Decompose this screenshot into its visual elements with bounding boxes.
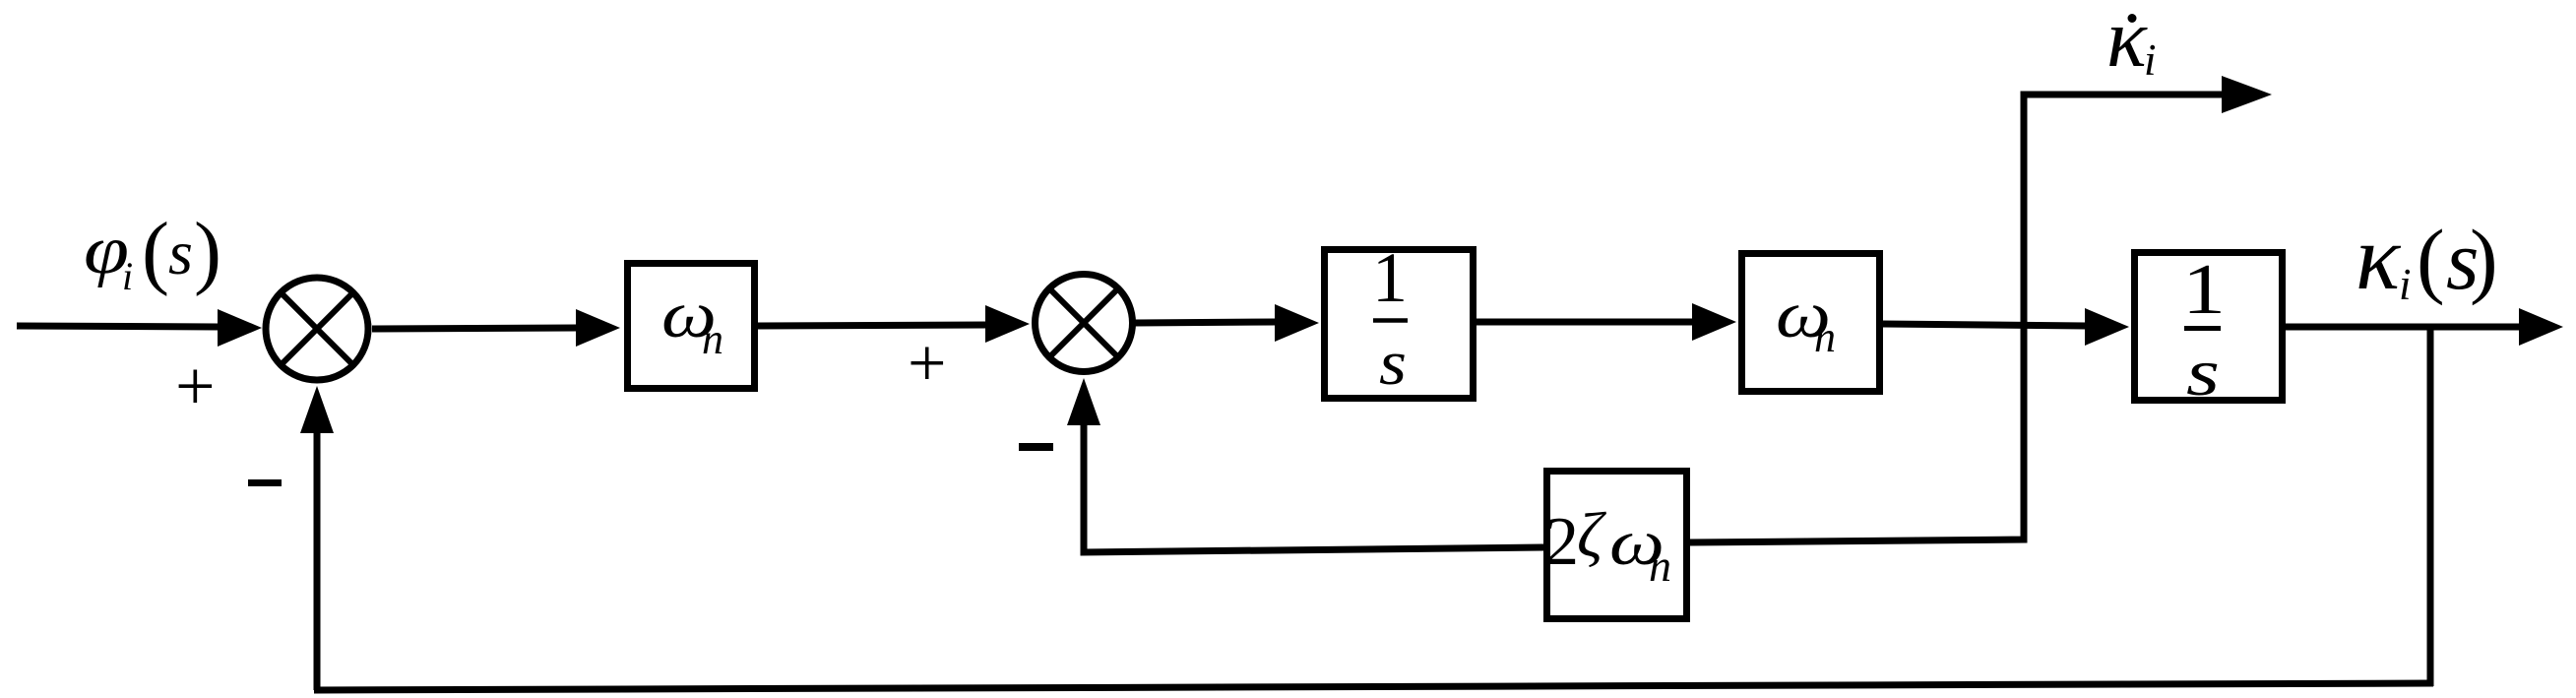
label phi_i(s) input bbox=[84, 206, 221, 298]
wire branch up to kdot output bbox=[2024, 95, 2223, 326]
wire G1 feedback to S2 bbox=[1084, 421, 1543, 552]
svg-text:ζ: ζ bbox=[1577, 500, 1606, 571]
wire outer feedback bottom bbox=[314, 683, 2433, 690]
label minus at S1 bbox=[248, 479, 282, 486]
arrowhead into W2 bbox=[1692, 303, 1736, 341]
svg-text:κ: κ bbox=[2106, 0, 2148, 85]
label 1/s in I1 bbox=[1372, 238, 1408, 399]
svg-text:i: i bbox=[122, 254, 133, 298]
svg-text:i: i bbox=[2144, 35, 2157, 85]
svg-text:n: n bbox=[1649, 540, 1671, 591]
svg-text:+: + bbox=[908, 326, 946, 402]
svg-text:2: 2 bbox=[1544, 504, 1579, 580]
wire W2 to I2 bbox=[1883, 324, 2087, 326]
svg-text:s: s bbox=[2186, 335, 2220, 410]
wire S2 to I1 bbox=[1135, 322, 1276, 323]
svg-text:(: ( bbox=[142, 206, 169, 297]
wire output bbox=[2286, 324, 2520, 331]
arrowhead into I1 bbox=[1275, 304, 1319, 342]
svg-text:s: s bbox=[1379, 328, 1407, 399]
arrowhead main output bbox=[2519, 308, 2563, 346]
summing junction S2 bbox=[1036, 275, 1133, 372]
wire branch down to feedback bbox=[1690, 322, 2024, 542]
arrowhead into I2 bbox=[2085, 308, 2129, 346]
label omega_n in W2 bbox=[1776, 277, 1836, 361]
svg-text:s: s bbox=[168, 218, 193, 287]
svg-text:n: n bbox=[702, 315, 723, 363]
label kappa_dot_i top output bbox=[2106, 0, 2157, 85]
wire W1 to S2 bbox=[758, 325, 986, 326]
svg-text:κ: κ bbox=[2356, 207, 2402, 309]
svg-text:): ) bbox=[194, 206, 221, 297]
block W1 omega_n bbox=[628, 264, 755, 389]
wire S1 to W1 bbox=[372, 328, 577, 329]
svg-text:1: 1 bbox=[1372, 238, 1408, 317]
wire input bbox=[17, 326, 219, 327]
block G1 2*zeta*omega_n bbox=[1547, 472, 1687, 619]
block I1 integrator 1/s bbox=[1325, 250, 1474, 399]
arrowhead feedback into S2 bbox=[1067, 378, 1100, 425]
block I2 integrator 1/s bbox=[2135, 253, 2283, 401]
arrowhead outer feedback into S1 bbox=[300, 386, 334, 433]
svg-text:+: + bbox=[175, 347, 216, 425]
label 1/s in I2 bbox=[2182, 249, 2226, 410]
wire I1 to W2 bbox=[1476, 319, 1693, 326]
svg-text:n: n bbox=[1814, 313, 1836, 361]
block W2 omega_n bbox=[1742, 254, 1880, 392]
wire outer feedback up to S1 bbox=[314, 433, 321, 690]
svg-text:(: ( bbox=[2417, 212, 2445, 306]
svg-text:): ) bbox=[2470, 212, 2498, 306]
summing junction S1 bbox=[266, 278, 368, 380]
svg-text:i: i bbox=[2399, 260, 2412, 309]
label minus at S2 bbox=[1019, 443, 1053, 451]
label 2 zeta omega_n in G1 bbox=[1544, 500, 1671, 591]
arrowhead into S2 bbox=[985, 305, 1030, 343]
wire outer feedback down bbox=[2427, 327, 2434, 686]
label omega_n in W1 bbox=[661, 277, 723, 363]
arrowhead into W1 bbox=[576, 309, 620, 347]
arrowhead kdot output bbox=[2222, 76, 2272, 113]
arrowhead into S1 bbox=[218, 309, 262, 347]
svg-text:1: 1 bbox=[2182, 249, 2226, 329]
label kappa_i(s) output bbox=[2356, 207, 2498, 309]
